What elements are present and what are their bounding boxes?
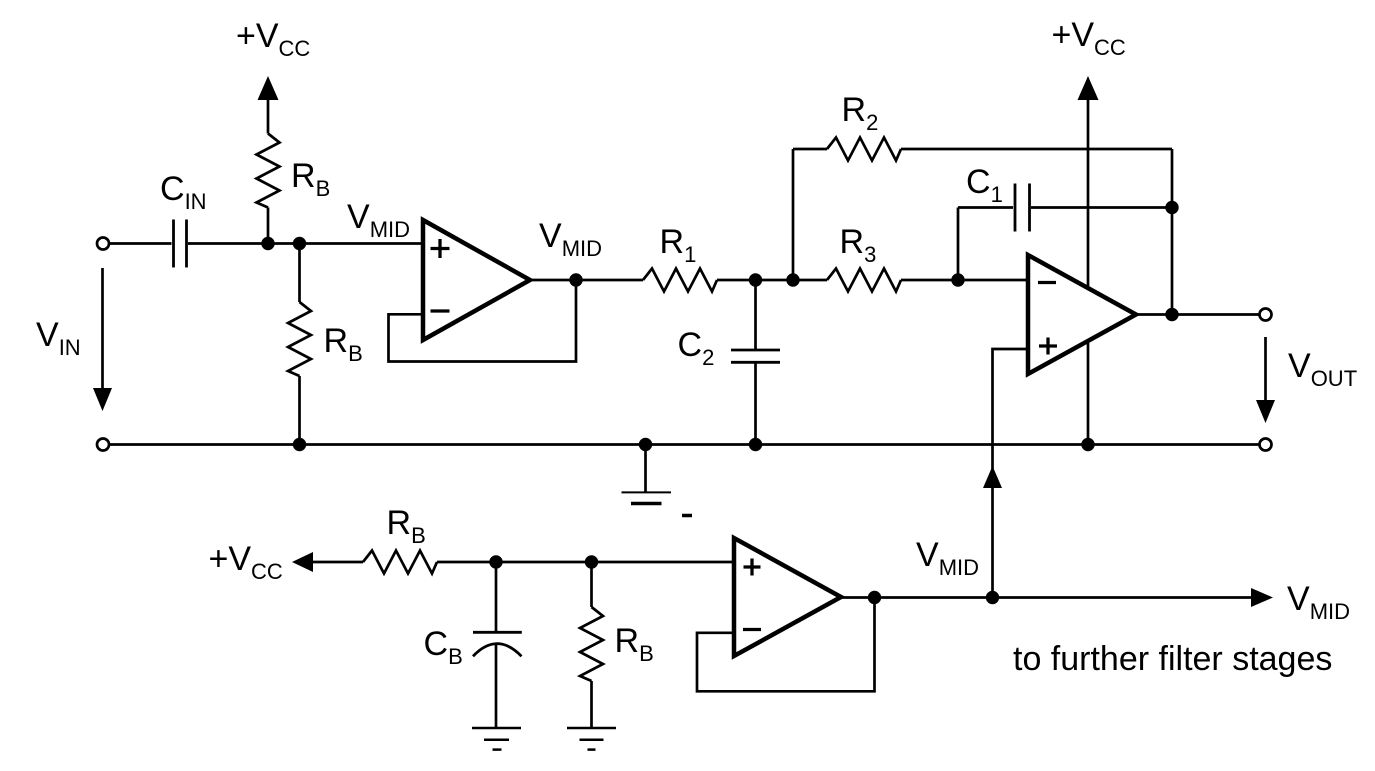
- node G junction dot (CB tap): [489, 555, 502, 568]
- op-amp U1 (input buffer): [423, 220, 530, 340]
- op-amp U2 (filter amplifier): [1028, 255, 1136, 374]
- wire U3 output to VMID arrow: [841, 596, 1252, 599]
- capacitor CB (polarized, to ground): [473, 562, 522, 728]
- wire R2 right leg down to node F: [1171, 149, 1174, 208]
- VOUT arrow (down): [1256, 337, 1275, 423]
- wire node D to R2: [793, 148, 827, 151]
- +VCC left arrow (bottom bias generator): [292, 552, 313, 572]
- node B junction dot: [293, 237, 306, 250]
- wire R1 to R3: [717, 279, 827, 282]
- wire +VCC arrow to RB: [312, 561, 363, 564]
- resistor R2: [827, 138, 901, 161]
- node U1 output junction dot: [569, 273, 582, 286]
- ground rail: [110, 443, 1260, 446]
- node C junction dot (R1/C2): [749, 273, 762, 286]
- VMID direction arrowhead (pointing up, below rail): [983, 466, 1002, 488]
- wire RB lower to ground rail: [298, 376, 301, 445]
- node A junction dot (bias divider tap): [261, 237, 274, 250]
- node D junction dot (R2 tap): [786, 273, 799, 286]
- wire U1 feedback: -input stub, down, across, up to output: [389, 280, 577, 362]
- node U2 output junction dot: [1165, 308, 1178, 321]
- capacitor C1 (feedback) with legs: [958, 184, 1172, 281]
- node rail junction dot (C2): [749, 438, 762, 451]
- wire RB upper to node A: [267, 208, 270, 244]
- wire U1 output to R1: [530, 279, 643, 282]
- resistor RB (upper bias): [257, 134, 280, 208]
- wire R3 to op-amp U2 -input: [901, 279, 1028, 282]
- minus mark beside ground: [682, 514, 692, 518]
- node H junction dot (RB tap): [585, 555, 598, 568]
- ground symbol (under CB): [472, 728, 521, 750]
- VMID right arrowhead: [1251, 588, 1273, 607]
- +VCC power arrow (top right): [1078, 76, 1099, 100]
- resistor R1: [643, 269, 717, 292]
- output terminal VOUT: [1260, 309, 1272, 321]
- node F junction dot (R2/C1 column): [1165, 201, 1178, 214]
- resistor RB (bias feed, horizontal): [363, 551, 437, 574]
- node E junction dot (R3/C1): [951, 273, 964, 286]
- node rail junction dot (VCC2 return): [1081, 438, 1094, 451]
- wire R2 left leg (node D up): [792, 149, 795, 280]
- node VMID junction dot (riser tap): [986, 591, 999, 604]
- resistor R3: [827, 269, 901, 292]
- capacitor C2 (shunt to rail): [731, 280, 780, 445]
- wire +VCC2 feed down to rail (behind op-amp U2): [1087, 99, 1090, 445]
- wire U2 +input stub: [993, 349, 1029, 598]
- capacitor CIN: [174, 220, 187, 268]
- wire node B to RB lower: [298, 244, 301, 303]
- node rail junction dot (bias lower): [293, 438, 306, 451]
- wire RB to op-amp U3 +input: [437, 561, 734, 564]
- wire RB to ground: [590, 681, 593, 728]
- input terminal (top left): [97, 238, 109, 250]
- wire U3 feedback: -input stub, down, across, up to output: [697, 598, 875, 692]
- wire CIN to op-amp U1 +input: [188, 242, 423, 245]
- wire node H to RB lower: [590, 562, 593, 607]
- VIN arrow (down): [93, 268, 112, 411]
- resistor RB (lower bias): [288, 302, 311, 376]
- wire node F down to U2 output node: [1171, 208, 1174, 315]
- op-amp U3 (VMID buffer): [734, 538, 841, 656]
- +VCC power arrow (top left): [258, 76, 279, 134]
- ground symbol (mid rail): [622, 445, 672, 504]
- svg-text:to further filter stages: to further filter stages: [1013, 640, 1332, 678]
- wire R2 to right leg: [901, 148, 1172, 151]
- wire U2 output: [1136, 313, 1259, 316]
- node rail junction dot (mid ground): [639, 438, 652, 451]
- rail terminal (right): [1260, 439, 1272, 451]
- rail terminal (left): [97, 439, 109, 451]
- wire input terminal to CIN: [110, 242, 172, 245]
- ground symbol (under RB): [567, 728, 616, 750]
- node U3 output junction dot: [868, 591, 881, 604]
- resistor RB (bias divider, vertical): [580, 607, 603, 681]
